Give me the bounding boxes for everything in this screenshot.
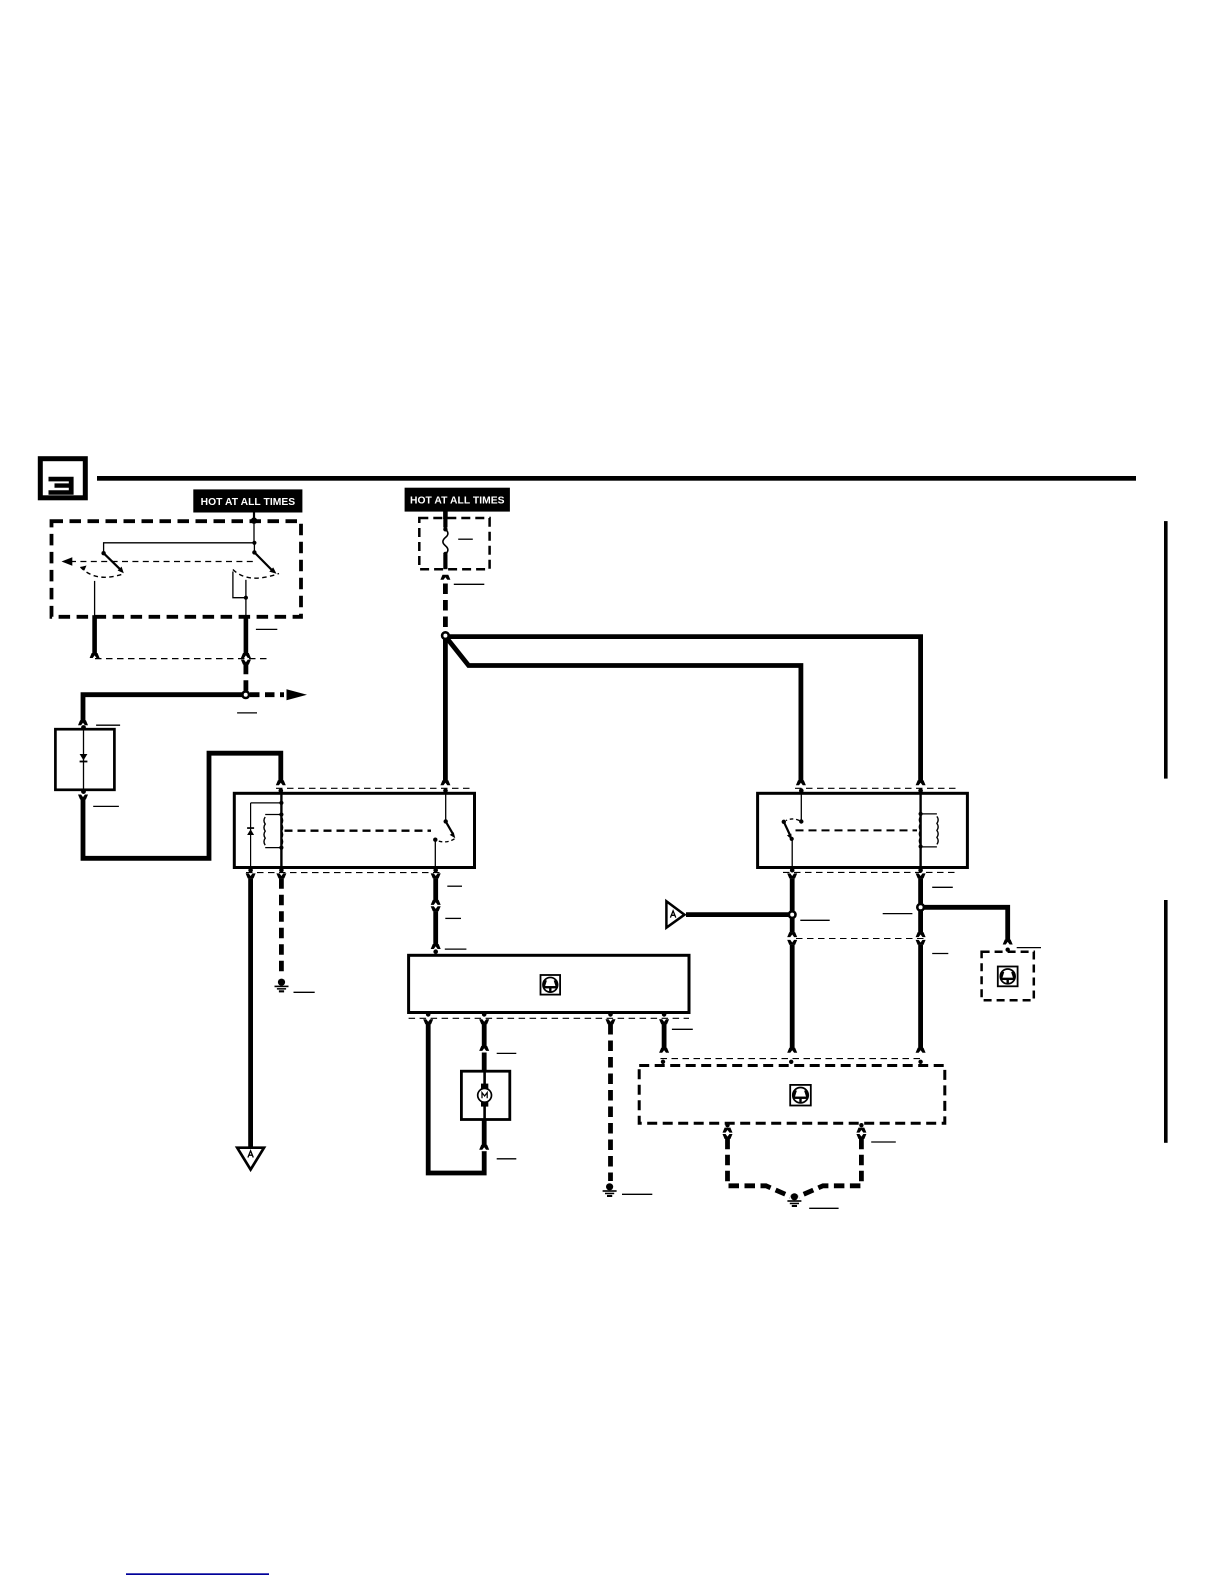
label line at aux unit bbox=[1017, 947, 1041, 949]
connector fork at aux unit bbox=[1003, 940, 1013, 945]
relay K2 switch bbox=[782, 793, 804, 867]
svg-text:HOT AT ALL TIMES: HOT AT ALL TIMES bbox=[201, 497, 296, 508]
label line K2 pin85 bbox=[932, 886, 953, 888]
diode box bottom pin bbox=[81, 789, 86, 794]
wire K2 pin85 upper bbox=[918, 878, 923, 904]
ignition switch dashed box S1 bbox=[52, 521, 302, 617]
relay K2 box bbox=[758, 793, 968, 867]
wire fuse to junction (dashed) bbox=[443, 584, 448, 631]
wire splice to relay K1 switch bbox=[443, 638, 448, 781]
label HOT AT ALL TIMES (right) bbox=[405, 488, 509, 511]
diode D1 symbol bbox=[80, 754, 88, 762]
relay K1 armature link (dashed) bbox=[285, 830, 432, 832]
wire module pin3 to ground (dashed) bbox=[608, 1024, 613, 1181]
connector fork at diode box top bbox=[78, 720, 88, 725]
node B+ at ignition switch feed bbox=[251, 517, 257, 523]
fuse F1 dashed box bbox=[419, 518, 489, 569]
diode unit box D1 bbox=[55, 729, 114, 790]
wire to left switch pole bbox=[104, 543, 255, 552]
connector fork module pin3 bbox=[606, 1019, 616, 1024]
wire splice to relay K2 switch bbox=[447, 639, 801, 781]
relay K1 bottom pin 87 bbox=[433, 868, 438, 873]
in-line connector pair unit pin2 bbox=[856, 1128, 866, 1139]
label line module pin4 bbox=[672, 1028, 693, 1030]
wire ignition output left (thick) bbox=[92, 615, 97, 653]
in-line connector line right side bbox=[796, 938, 926, 940]
connector fork K1 pin85 bbox=[276, 873, 286, 878]
ignition switch blade (right) bbox=[254, 552, 276, 573]
label line at ground G3 bbox=[809, 1207, 838, 1209]
node A junction (open) bbox=[789, 911, 796, 918]
label line at diode box top bbox=[96, 724, 120, 726]
wire K2 pin85 to unit box bbox=[918, 945, 923, 1048]
wire diode box to relay K1 coil feed bbox=[83, 753, 281, 858]
node power splice (open) bbox=[442, 632, 449, 639]
connector line below module bbox=[409, 1017, 689, 1019]
ground G3 (bottom unit) bbox=[787, 1193, 801, 1207]
wire ignition output right (thick) bbox=[244, 615, 249, 653]
wire module pin2 to motor bbox=[482, 1024, 487, 1046]
wire K1 pin87 lower segment bbox=[433, 911, 438, 944]
right switch throw arc bbox=[233, 570, 279, 579]
in-line connector pair K2 pin85 wire bbox=[916, 932, 926, 945]
relay K1 diode symbol bbox=[247, 827, 254, 835]
module top pin bbox=[433, 949, 438, 954]
connector fork K2 pin85 at unit box bbox=[916, 1048, 926, 1053]
relay K1 top pin 30 bbox=[443, 788, 448, 793]
wire right switch contact to box edge bbox=[245, 580, 247, 617]
unit box bottom pin 2 bbox=[859, 1123, 863, 1127]
wire left switch contact to box edge bbox=[94, 581, 96, 617]
top horizontal rule bbox=[97, 476, 1136, 481]
label line K2 pin85 lower bbox=[932, 953, 948, 955]
wire unit pin2 to ground (dashed) bbox=[799, 1139, 862, 1197]
relay K2 top pin 86 bbox=[918, 788, 923, 793]
wire into motor box bbox=[482, 1053, 487, 1072]
connector fork module pin1 bbox=[423, 1019, 433, 1024]
label line at ground G2 bbox=[622, 1193, 652, 1195]
dashed continuation arrow right bbox=[250, 689, 307, 700]
motor M1 box bbox=[461, 1071, 509, 1119]
relay K1 bottom pin 85a bbox=[248, 868, 253, 873]
wire module pin1 to motor return bbox=[428, 1024, 484, 1173]
module bottom pin 4 bbox=[662, 1012, 667, 1017]
wire right output to junction (dashed) bbox=[243, 664, 248, 692]
right switch contact stub loop bbox=[233, 572, 246, 598]
relay K1 coil bbox=[264, 812, 284, 849]
wire K1 to triangle A bbox=[248, 878, 253, 1147]
relay K2 armature link (dashed) bbox=[796, 829, 918, 831]
connector fork mate right output bbox=[241, 660, 251, 665]
section number box 3 bbox=[40, 459, 85, 498]
unit box top pin 3 bbox=[918, 1060, 922, 1064]
connector fork below motor bbox=[479, 1145, 489, 1150]
wire splice to diode box corner bbox=[83, 695, 243, 721]
connector line below relay K1 bbox=[246, 872, 440, 874]
connector fork K1 pin87 bbox=[431, 873, 441, 878]
control module box bbox=[409, 955, 689, 1012]
connector fork left output bbox=[90, 653, 100, 658]
wire module pin4 to unit box bbox=[662, 1024, 667, 1048]
bottom unit dashed box bbox=[639, 1066, 945, 1124]
wire stub HOT label to fuse bbox=[443, 511, 448, 519]
label line motor return bbox=[497, 1158, 517, 1160]
wire ignition feed internal bbox=[253, 521, 255, 543]
label line left of branch junction bbox=[883, 913, 913, 915]
fuse F1 element bbox=[443, 518, 448, 569]
relay K1 node coil/diode split bbox=[279, 801, 283, 805]
connector fork at relay K1 switch feed bbox=[440, 780, 450, 785]
connector fork K2 pin85 bbox=[916, 873, 926, 878]
aux unit icon bbox=[998, 967, 1018, 987]
relay K1 bottom pin 85 bbox=[279, 868, 284, 873]
connector fork K2 pin87 at unit box bbox=[787, 1048, 797, 1053]
wire below motor box bbox=[482, 1120, 487, 1146]
connector fork at relay K2 switch feed bbox=[796, 780, 806, 785]
connector fork K2 pin87 bbox=[787, 873, 797, 878]
label line below fuse bbox=[454, 583, 485, 585]
unit box top pin 1 bbox=[661, 1060, 665, 1064]
connector fork below diode box bbox=[78, 795, 88, 800]
wire stub from HOT label to ignition switch bbox=[253, 512, 255, 520]
connector fork at relay K2 coil feed bbox=[916, 780, 926, 785]
module bottom pin 3 bbox=[608, 1012, 613, 1017]
blue rule bottom left bbox=[126, 1573, 269, 1575]
unit box top pin 2 bbox=[789, 1060, 793, 1064]
aux unit dashed box bbox=[982, 952, 1034, 1001]
in-line connector pair K2 pin87 wire bbox=[787, 932, 797, 945]
connector fork at module top bbox=[431, 944, 441, 949]
wire K2 pin85 lower bbox=[918, 910, 923, 932]
connector fork module pin4 bbox=[659, 1019, 669, 1024]
connector fork module pin2 bbox=[479, 1019, 489, 1024]
node ignition feed junction bbox=[252, 541, 256, 545]
relay K1 switch bbox=[433, 793, 455, 867]
wire K1 pin87 upper segment bbox=[433, 878, 438, 900]
connector fork at motor feed bbox=[479, 1046, 489, 1051]
label line wire segment upper bbox=[447, 885, 462, 887]
relay K2 bottom pin 85 bbox=[918, 868, 923, 873]
reference triangle A (right) with wire bbox=[666, 901, 790, 928]
connector fork below fuse bbox=[440, 575, 450, 580]
in-line connector line below ignition switch bbox=[95, 658, 271, 660]
label HOT AT ALL TIMES (left) bbox=[194, 490, 302, 512]
right margin section bar (upper) bbox=[1164, 521, 1168, 779]
off-direction dashed arrow bbox=[62, 557, 255, 565]
wire unit pin1 to ground (dashed) bbox=[728, 1139, 791, 1197]
wire K1 coil to ground (dashed) bbox=[279, 878, 284, 976]
in-line connector pair on K1 pin87 wire bbox=[431, 900, 441, 911]
relay K1 top pin 86 bbox=[279, 788, 284, 793]
relay K1 diode branch wire bbox=[251, 803, 282, 868]
right margin section bar (lower) bbox=[1164, 900, 1168, 1143]
label line below diode box bbox=[93, 805, 119, 807]
ground G2 (module) bbox=[603, 1183, 617, 1197]
wire motor return lower stub bbox=[482, 1149, 487, 1155]
diode box top pin bbox=[81, 725, 86, 730]
wire splice to relay K2 coil bbox=[449, 637, 921, 781]
wire branch to aux unit bbox=[923, 907, 1008, 940]
ground G1 (relay K1 coil) bbox=[275, 979, 289, 993]
module bottom pin 2 bbox=[482, 1012, 487, 1017]
label line at ground G1 bbox=[294, 991, 315, 993]
connector fork module pin4 lower bbox=[659, 1048, 669, 1053]
label line below splice X bbox=[237, 712, 257, 714]
label line below A junction bbox=[800, 919, 829, 921]
label line motor feed bbox=[497, 1052, 517, 1054]
left switch throw arc bbox=[81, 566, 125, 578]
connector fork K1 pin85a bbox=[246, 873, 256, 878]
relay K2 top pin 30 bbox=[799, 788, 804, 793]
wire to right switch pole bbox=[253, 543, 255, 551]
label line inside fuse box bbox=[458, 538, 473, 540]
node right contact join bbox=[244, 596, 248, 600]
node splice X (open) bbox=[242, 691, 249, 698]
relay K2 bottom pin 87 bbox=[790, 868, 795, 873]
relay K2 coil wire bbox=[919, 793, 921, 867]
wire K2 pin87 to A junction bbox=[790, 878, 795, 932]
aux unit top pin bbox=[1006, 948, 1010, 952]
label line wire segment lower bbox=[445, 917, 461, 919]
node K2 branch junction (open) bbox=[917, 904, 924, 911]
relay K1 box bbox=[234, 793, 474, 867]
connector line above unit box bbox=[661, 1058, 924, 1060]
motor M1 symbol bbox=[478, 1071, 492, 1119]
ignition switch blade (left) bbox=[104, 553, 124, 573]
in-line connector pair unit pin1 bbox=[723, 1128, 733, 1139]
label line unit pin2 bbox=[871, 1141, 896, 1143]
left switch pivot node bbox=[101, 551, 105, 555]
svg-text:HOT AT ALL TIMES: HOT AT ALL TIMES bbox=[410, 496, 505, 507]
relay K1 coil feed wire bbox=[280, 793, 282, 867]
connector fork at relay K1 coil feed bbox=[276, 780, 286, 785]
relay K2 coil bbox=[919, 812, 939, 849]
bottom unit icon bbox=[790, 1085, 811, 1106]
connector fork right output bbox=[241, 653, 251, 658]
connector line below relay K2 bbox=[783, 871, 957, 873]
wire K2 pin87 to unit box bbox=[790, 945, 795, 1048]
connector line above relay K1 bbox=[276, 787, 471, 789]
label line ignition right output bbox=[256, 628, 277, 630]
unit box bottom pin 1 bbox=[725, 1123, 729, 1127]
module icon bbox=[541, 975, 561, 995]
module bottom pin 1 bbox=[426, 1012, 431, 1017]
label line at module top pin bbox=[445, 948, 467, 950]
connector line above relay K2 bbox=[795, 787, 957, 789]
reference triangle A (down) bbox=[237, 1148, 264, 1170]
diode D1 internal wire bbox=[83, 729, 85, 790]
right switch pivot node bbox=[252, 550, 256, 554]
